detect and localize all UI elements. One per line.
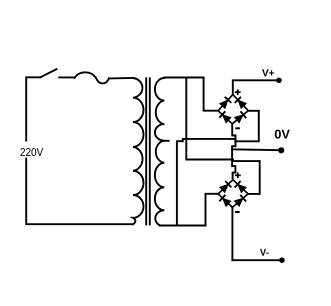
wire: AC2 riser from bottom lead + line to column — [177, 139, 235, 225]
wire: switch contact to fuse — [59, 76, 74, 78]
wire: secondary top lead to bridge B1 left vertex (net AC1) — [164, 78, 217, 111]
wire: AC1 branch down from top lead — [186, 78, 233, 160]
diode B1d lower-right (anode -, cathode AC-right) — [234, 111, 246, 123]
bridge rectifier B1 diamond — [218, 95, 248, 124]
label - of bridge B2 — [235, 211, 240, 213]
label V- (negative output) — [260, 249, 269, 256]
wire: mains left vertical lower + bottom lead to primary — [26, 159, 133, 225]
label + of bridge B2 — [235, 172, 241, 178]
wire: secondary bottom lead (net AC2) — [160, 225, 206, 227]
label + of bridge B1 — [235, 89, 241, 95]
wire: bridge B2 - output to V- terminal — [232, 207, 279, 260]
wire: AC1 branch to bridge B2 right vertex — [233, 161, 260, 194]
terminal dot 0V — [278, 147, 284, 153]
wire: 0V column B1 minus to B2 plus (with jogs) — [232, 123, 235, 178]
wire: bridge B1 + output to V+ terminal — [233, 80, 277, 94]
fuse F1 (tilde symbol) — [75, 72, 110, 83]
transformer T1 primary winding — [133, 78, 144, 224]
diode B1a upper-left (anode AC-left, cathode +) — [219, 97, 231, 109]
terminal dot V- — [279, 257, 285, 263]
switch SW1 (open blade) — [40, 69, 56, 77]
label 0V (common output) — [275, 130, 290, 139]
diode B2a upper-left (anode AC-left, cathode +) — [219, 181, 231, 193]
transformer T1 core line 2 — [149, 78, 151, 224]
transformer T1 core line 1 — [145, 78, 147, 224]
label 220V (primary voltage) — [20, 148, 43, 156]
transformer T1 secondary winding — [155, 78, 164, 226]
diode B2d lower-right (anode -, cathode AC-right) — [234, 195, 246, 207]
diode B2b upper-right (anode AC-right, cathode +) — [235, 181, 247, 193]
diode B1c lower-left (anode -, cathode AC-left) — [219, 111, 231, 123]
wire: mains left vertical upper with top corner — [26, 77, 40, 140]
wire: 0V output line — [232, 148, 278, 151]
wire: AC2 riser to bridge B2 left vertex — [206, 194, 218, 226]
label - of bridge B1 — [235, 127, 240, 129]
wire: fuse to primary top — [109, 77, 133, 79]
wire: secondary center tap stub — [163, 140, 169, 142]
diode B1b upper-right (anode AC-right, cathode +) — [235, 97, 247, 109]
wire: AC2 line to bridge B1 right vertex — [235, 111, 258, 142]
bridge rectifier B2 diamond — [218, 180, 248, 208]
label V+ (positive output) — [262, 69, 274, 76]
diode B2c lower-left (anode -, cathode AC-left) — [219, 195, 231, 207]
terminal dot V+ — [276, 78, 282, 84]
